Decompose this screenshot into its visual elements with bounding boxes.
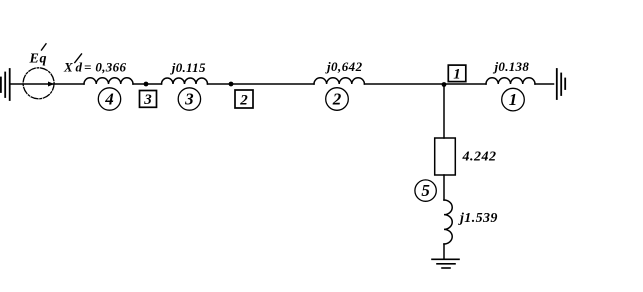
svg-text:2: 2 (239, 93, 248, 109)
svg-text:3: 3 (184, 90, 194, 109)
svg-text:4.242: 4.242 (462, 150, 497, 165)
svg-text:q: q (40, 52, 47, 67)
svg-text:5: 5 (421, 181, 430, 200)
svg-text:= 0,366: = 0,366 (84, 60, 127, 75)
svg-text:j1.539: j1.539 (458, 211, 498, 226)
svg-text:3: 3 (143, 92, 152, 108)
svg-text:E: E (29, 52, 39, 67)
svg-text:1: 1 (509, 90, 518, 109)
svg-text:j0,642: j0,642 (325, 59, 363, 74)
svg-text:1: 1 (453, 67, 461, 83)
svg-text:d: d (76, 60, 83, 75)
svg-text:X: X (63, 60, 73, 75)
svg-text:j0.115: j0.115 (170, 60, 206, 75)
svg-text:2: 2 (332, 90, 342, 109)
svg-text:4: 4 (104, 90, 114, 109)
svg-text:j0.138: j0.138 (493, 59, 530, 74)
